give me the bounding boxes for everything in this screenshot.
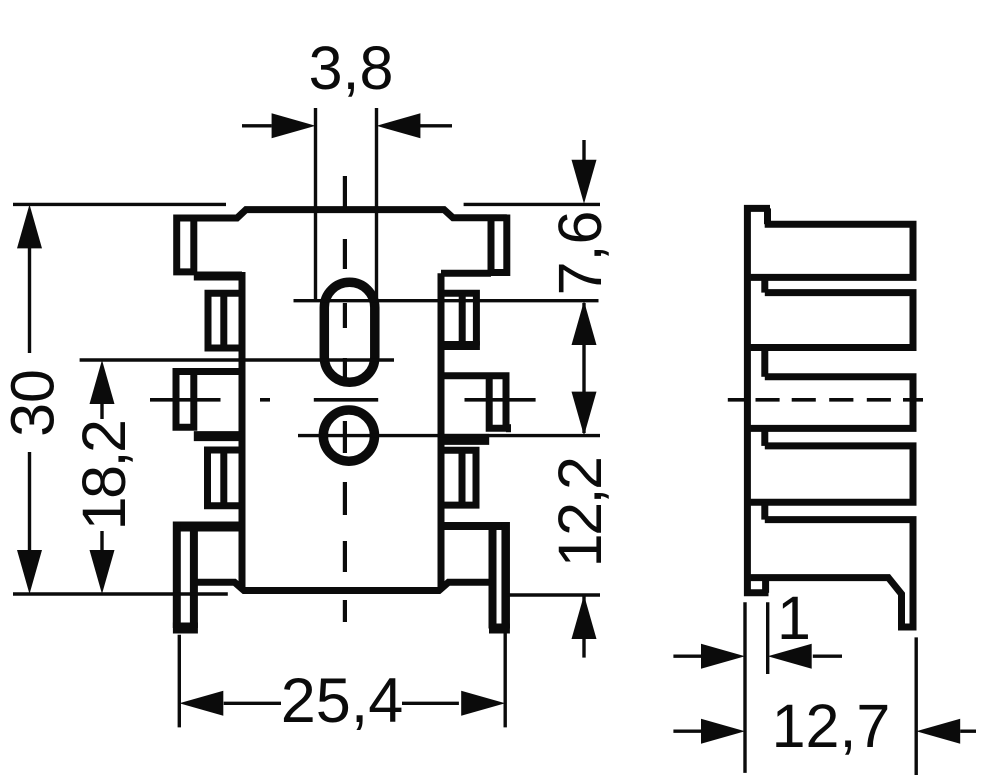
fin row R4: [751, 446, 913, 502]
18,2 top arrow (up): [90, 360, 115, 404]
dimension 12,7: tails: [673, 730, 702, 733]
fin4 left inner wall: [220, 450, 227, 506]
fin2 right bottom bar: [441, 341, 480, 350]
bottom rail: left outer bar + chamfers + lowered center bar + right outer bar: [195, 582, 491, 590]
main right vertical VR: [438, 273, 445, 590]
bottom-right reference line (12,2 lower): [507, 593, 600, 596]
stub 4: [761, 428, 768, 446]
fin1 right: outer wall + bottom bar + inner wall: [491, 215, 507, 273]
fin2 right inner wall: [459, 293, 466, 345]
oblong hole: [324, 282, 375, 382]
dimension 12,7: right extension line: [915, 637, 918, 775]
horizontal centre line of front view: [150, 398, 221, 402]
bottom-left reference line (30 / 18,2): [13, 592, 228, 595]
right leg bottom bar: [489, 624, 510, 634]
svg-text:18,2: 18,2: [70, 422, 138, 531]
fin4 right inner wall: [459, 450, 466, 505]
12,2 top arrow (down): [572, 392, 597, 436]
stub 1: [764, 208, 771, 224]
svg-text:12,7: 12,7: [772, 692, 891, 760]
7,6 bottom arrow (up): [572, 301, 597, 345]
stub 5: [761, 502, 768, 519]
left leg bottom bar: [173, 623, 198, 634]
fin2 right ring: [441, 293, 476, 345]
12,7 right arrow (left-pointing): [916, 719, 960, 744]
3,8 right arrow: [377, 113, 421, 138]
3,8 left arrow: [272, 113, 316, 138]
left leg top bar: [177, 522, 242, 532]
30 top arrow (up): [17, 204, 42, 248]
fin1 left: outer wall + bottom bar + inner wall: [177, 215, 194, 272]
fin2 left ring: [208, 293, 242, 348]
fin3 right bottom bar stick-out: [506, 424, 511, 432]
1 left arrow (right-pointing): [701, 644, 745, 669]
dimension 25,4: line pieces: [224, 702, 281, 705]
vertical centre line of front view: [343, 176, 347, 207]
12,7 left arrow (right-pointing): [701, 719, 745, 744]
fin3 right: top bar + outer wall + bottom bar + inner wall: [441, 376, 506, 429]
fin4 right ring: [441, 450, 476, 505]
dimension 18,2: shafts: [100, 402, 103, 419]
18,2 bottom arrow (down): [90, 550, 115, 594]
left leg outer wall: [173, 522, 181, 629]
side view: leg fold stub: [762, 578, 769, 593]
25,4 right arrow: [461, 691, 505, 716]
horizontal centre line of side view: [728, 398, 745, 402]
svg-text:12,2: 12,2: [546, 459, 614, 568]
dimension 12,2: bottom shaft: [582, 595, 585, 658]
1 right arrow (left-pointing): [768, 644, 812, 669]
svg-text:7,6: 7,6: [546, 211, 614, 296]
top rail: left arm bar + chamfers + raised center bar: [177, 210, 507, 218]
dimension 3,8: extension lines: [314, 108, 317, 299]
round-hole centre reference line (12,2 upper): [298, 434, 600, 437]
fin4 left ring: [208, 450, 243, 506]
top-left reference line (30): [13, 203, 226, 206]
oblong-hole centre reference line (7,6 lower): [294, 299, 599, 302]
shelf1 left: [194, 272, 242, 281]
dimension 25,4: extension lines: [178, 635, 181, 728]
stub 3: [761, 348, 768, 377]
round hole: [323, 410, 374, 461]
svg-text:30: 30: [0, 369, 67, 437]
7,6 top arrow (down): [572, 160, 597, 204]
12,2 bottom arrow (up): [572, 595, 597, 639]
18,2 upper reference line: [80, 358, 394, 361]
spine: top bar + left wall: [747, 208, 770, 592]
fin2 left inner wall: [220, 293, 227, 348]
right leg top bar: [441, 522, 506, 530]
dimension 7,6: shafts: [582, 140, 585, 165]
fin row R2: [751, 293, 913, 348]
svg-text:25,4: 25,4: [281, 666, 404, 736]
right leg outer wall: [501, 522, 510, 629]
dimension 30: shafts: [28, 246, 31, 353]
main left vertical VL: [239, 272, 246, 591]
svg-text:3,8: 3,8: [309, 34, 394, 102]
top-right reference line (7,6): [464, 203, 600, 206]
shelf2 right: [441, 434, 489, 445]
fin3 left: top bar + outer wall + bottom bar + inner wall: [176, 372, 242, 428]
stub 2: [761, 277, 768, 292]
bottom block R5 with step and foot: [751, 520, 913, 627]
dimension 1: tails: [673, 655, 702, 658]
dimension 3,8: tails: [242, 124, 272, 127]
left leg inner wall: [190, 532, 198, 629]
shelf2 left: [194, 431, 242, 441]
right leg inner wall: [489, 530, 497, 629]
fin row R3: [751, 377, 913, 429]
dimension 1: extension lines: [743, 602, 746, 773]
30 bottom arrow (down): [17, 550, 42, 594]
fin row R1: top bar + right wall + bottom bar: [751, 224, 913, 277]
svg-text:1: 1: [777, 584, 811, 652]
shelf1 right: [441, 270, 491, 277]
25,4 left arrow: [179, 691, 223, 716]
